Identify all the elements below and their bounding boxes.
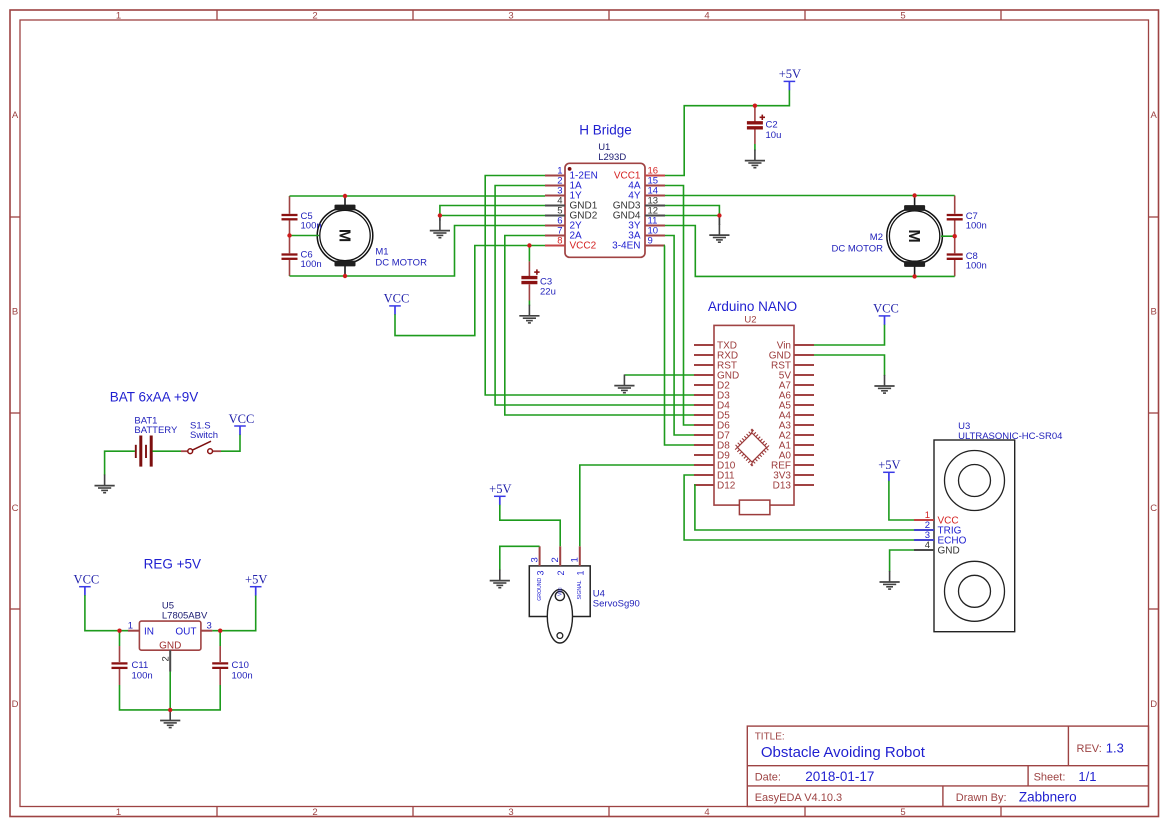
U3 pin 4 (GND) — [914, 540, 960, 557]
junction node GND3/GND4 — [717, 213, 721, 217]
svg-text:1: 1 — [116, 807, 121, 818]
svg-text:D: D — [12, 699, 19, 710]
ground (U2 right) — [874, 375, 894, 393]
wire C2 to ground — [754, 144, 756, 151]
ground (regulator) — [160, 709, 180, 727]
U4 pin 2 (Vcc) — [550, 546, 566, 596]
svg-text:4: 4 — [704, 807, 709, 818]
wire C7/C8 node to motor M2 — [941, 235, 955, 237]
capacitor C2 (10u polarized) — [747, 106, 781, 144]
svg-text:100n: 100n — [232, 671, 253, 682]
svg-text:GND: GND — [938, 546, 960, 557]
U1 pin 14 (4Y) — [628, 186, 665, 202]
wire battery left to ground — [105, 451, 135, 475]
junction node ground rail — [168, 708, 172, 712]
svg-text:100n: 100n — [301, 221, 322, 232]
svg-text:2018-01-17: 2018-01-17 — [805, 769, 874, 784]
ground (servo) — [490, 570, 510, 588]
U3 pin 2 (TRIG) — [914, 520, 962, 537]
svg-text:C11: C11 — [132, 660, 149, 671]
wire Arduino D11 to U3 ECHO — [684, 475, 914, 540]
svg-text:REV:: REV: — [1077, 743, 1102, 755]
capacitor C11 — [112, 631, 153, 685]
U1 pin 16 (VCC1) — [614, 166, 665, 182]
capacitor C7 — [947, 196, 987, 237]
svg-text:Arduino NANO: Arduino NANO — [708, 299, 797, 314]
power flag VCC (battery) — [229, 412, 255, 435]
junction node M2 bottom — [912, 274, 916, 278]
U1 pin 2 (1A) — [545, 176, 582, 192]
wire C3 to ground — [528, 301, 530, 306]
wire C5/C6 node to motor M1 — [290, 235, 320, 237]
svg-text:DC MOTOR: DC MOTOR — [831, 243, 883, 254]
svg-text:Drawn By:: Drawn By: — [956, 792, 1007, 804]
regulator U5 L7805ABV — [128, 601, 213, 672]
U1 pin 13 (GND3) — [613, 196, 665, 212]
wire U1 pin14 (4Y) to M2 top — [665, 195, 955, 197]
U2 right pin stubs — [794, 345, 814, 485]
U1 pin 4 (GND1) — [545, 196, 598, 212]
svg-text:1: 1 — [576, 570, 586, 575]
svg-text:TITLE:: TITLE: — [755, 732, 785, 743]
wire U4 pin1 (SIGNAL) to Arduino D10 — [580, 465, 694, 546]
capacitor C3 (22u polarized) — [521, 246, 555, 301]
wire M1 top to U1 pin3 (1Y) — [290, 195, 546, 197]
wire U2 GND (right) to ground — [814, 355, 885, 376]
capacitor C6 — [282, 236, 322, 277]
svg-text:Zabbnero: Zabbnero — [1019, 789, 1077, 804]
ground (battery) — [95, 475, 115, 493]
svg-text:10u: 10u — [766, 130, 782, 141]
svg-text:2: 2 — [550, 557, 561, 562]
ground (C3) — [519, 305, 539, 323]
svg-text:3: 3 — [529, 557, 540, 562]
svg-text:M2: M2 — [870, 232, 883, 243]
svg-text:Obstacle Avoiding Robot: Obstacle Avoiding Robot — [761, 744, 926, 761]
svg-text:2: 2 — [556, 570, 566, 575]
svg-text:B: B — [12, 307, 18, 318]
wire U1 pin7 (2A) to Arduino D5 — [505, 236, 694, 416]
svg-text:100n: 100n — [132, 671, 153, 682]
svg-text:ServoSg90: ServoSg90 — [593, 598, 640, 609]
svg-text:VCC2: VCC2 — [570, 241, 597, 252]
capacitor C8 — [947, 236, 987, 276]
capacitor C10 — [212, 631, 252, 685]
svg-text:Sheet:: Sheet: — [1034, 772, 1066, 784]
svg-text:GND: GND — [159, 640, 181, 651]
wire U1 pin12 (GND4) to ground — [665, 215, 719, 217]
svg-text:8: 8 — [557, 236, 562, 247]
junction node C7/C8 — [953, 234, 957, 238]
wire U5 pin2 to ground rail — [169, 672, 171, 710]
U2 left pin stubs — [694, 345, 714, 485]
U1 pin 9 (3-4EN) — [612, 236, 665, 252]
wire U1 pin9 (3-4EN) to Arduino D8 — [665, 246, 695, 446]
wire U3 GND to ground — [890, 550, 914, 572]
wire VCC to pin1 of U5 — [85, 595, 128, 631]
svg-text:Vcc: Vcc — [557, 587, 563, 596]
svg-text:A: A — [1151, 110, 1158, 121]
svg-text:22u: 22u — [540, 287, 556, 298]
svg-text:EasyEDA V4.10.3: EasyEDA V4.10.3 — [755, 792, 842, 804]
svg-text:H Bridge: H Bridge — [579, 123, 632, 138]
U1 pin 5 (GND2) — [545, 206, 598, 222]
ground (C2) — [745, 150, 765, 168]
svg-text:D: D — [1150, 699, 1157, 710]
svg-text:BAT 6xAA +9V: BAT 6xAA +9V — [110, 390, 198, 405]
ground (U1 right) — [718, 216, 720, 226]
U3 pin 1 (VCC) — [914, 510, 959, 527]
svg-text:Date:: Date: — [755, 772, 781, 784]
wire U1 pin11 (3Y) to M2 bottom — [665, 226, 955, 277]
capacitor C5 — [282, 196, 322, 236]
svg-text:9: 9 — [648, 236, 653, 247]
wire U1 pin15 (4A) to Arduino D6 — [665, 186, 694, 426]
wire +5V to U3 pin1 — [889, 481, 914, 520]
junction node C2 tap — [753, 104, 757, 108]
power flag +5V (ultrasonic) — [878, 458, 900, 481]
wire VCC to U1 pin8 (VCC2) — [395, 246, 545, 336]
ground (ultrasonic) — [880, 571, 900, 589]
microcontroller U2 Arduino NANO body — [714, 315, 794, 505]
svg-text:C: C — [1150, 503, 1157, 514]
U1 pin 7 (2A) — [545, 226, 582, 242]
svg-text:2: 2 — [161, 656, 172, 661]
svg-text:4: 4 — [704, 11, 709, 22]
ground (U1 left) — [439, 216, 441, 221]
svg-text:100n: 100n — [301, 259, 322, 270]
U1 pin 8 (VCC2) — [545, 236, 597, 252]
wire U1 pin16 (VCC1) to +5V rail — [665, 90, 789, 176]
svg-text:GROUND: GROUND — [537, 577, 543, 600]
svg-text:100n: 100n — [966, 221, 987, 232]
servo U4 ServoSg90 body — [529, 566, 640, 643]
wire C11 down to ground rail — [120, 685, 221, 710]
svg-text:D13: D13 — [773, 481, 792, 492]
svg-text:1.3: 1.3 — [1106, 740, 1124, 755]
junction node GND1/GND2 — [438, 213, 442, 217]
U1 pin 15 (4A) — [628, 176, 665, 192]
wire U1 pin5 (GND2) to ground — [440, 215, 545, 217]
wire U1 pin13 (GND3) to ground — [665, 206, 719, 216]
svg-text:M: M — [335, 229, 352, 242]
U2 right pin labels — [769, 341, 792, 492]
U1 pin 6 (2Y) — [545, 216, 582, 232]
svg-text:BATTERY: BATTERY — [134, 425, 178, 436]
svg-text:U2: U2 — [744, 315, 756, 326]
svg-text:5: 5 — [900, 11, 905, 22]
wire pin3 of U5 to +5V — [212, 595, 255, 631]
svg-text:2: 2 — [312, 807, 317, 818]
svg-text:L7805ABV: L7805ABV — [162, 610, 208, 621]
svg-text:D12: D12 — [717, 481, 736, 492]
junction node M2 top — [912, 193, 916, 197]
svg-text:A: A — [12, 110, 19, 121]
svg-text:C10: C10 — [232, 660, 249, 671]
sensor U3 ULTRASONIC-HC-SR04 body — [934, 421, 1062, 632]
power flag +5V (servo) — [489, 482, 511, 505]
U2 USB connector — [739, 500, 770, 514]
motor M1 — [317, 196, 427, 276]
junction node M1 top — [343, 194, 347, 198]
U4 pin 3 (GROUND) — [529, 546, 545, 601]
wire U4 pin3 to ground — [500, 546, 540, 570]
svg-text:3: 3 — [535, 570, 545, 575]
motor M2 — [831, 196, 942, 277]
power flag VCC (H bridge) — [384, 292, 410, 315]
svg-text:3: 3 — [508, 807, 513, 818]
U1 pin 11 (3Y) — [628, 216, 665, 232]
svg-text:B: B — [1151, 307, 1157, 318]
U1 pin 10 (3A) — [628, 226, 665, 242]
svg-text:C: C — [12, 503, 19, 514]
junction node C5/C6 — [287, 233, 291, 237]
svg-text:L293D: L293D — [598, 152, 626, 163]
svg-text:1: 1 — [128, 620, 133, 631]
U2 left pin labels — [717, 341, 739, 492]
wire U1 pin1 (1-2EN) to Arduino D3 — [485, 176, 694, 396]
svg-text:3: 3 — [508, 11, 513, 22]
svg-text:OUT: OUT — [175, 626, 196, 637]
svg-text:REG +5V: REG +5V — [144, 556, 201, 571]
U3 pin 3 (ECHO) — [914, 530, 967, 547]
svg-text:Switch: Switch — [190, 430, 218, 441]
switch S1.S — [181, 420, 221, 453]
op-amp U1 L293D body — [565, 142, 645, 257]
svg-text:M1: M1 — [375, 246, 388, 257]
svg-text:3: 3 — [207, 620, 212, 631]
power flag VCC (regulator input) — [74, 573, 100, 596]
svg-text:1: 1 — [570, 557, 581, 562]
U1 pin 12 (GND4) — [613, 206, 665, 222]
power flag +5V (regulator output) — [245, 573, 267, 596]
wire M1 bottom to U1 pin6 (2Y) — [290, 226, 546, 277]
U4 pin 1 (SIGNAL) — [570, 546, 586, 599]
wire Arduino D12 to U3 TRIG — [694, 485, 914, 530]
svg-text:1: 1 — [116, 11, 121, 22]
svg-text:100n: 100n — [966, 261, 987, 272]
svg-text:IN: IN — [144, 626, 154, 637]
battery BAT1 — [134, 416, 178, 467]
svg-text:M: M — [905, 229, 922, 242]
svg-text:5: 5 — [900, 807, 905, 818]
wire U2 GND (left) to ground — [624, 374, 694, 376]
junction node C11/pin1 — [117, 629, 121, 633]
svg-text:1/1: 1/1 — [1078, 769, 1096, 784]
svg-text:SIGNAL: SIGNAL — [577, 580, 583, 599]
svg-text:2: 2 — [312, 11, 317, 22]
junction node M1 bottom — [343, 274, 347, 278]
wire U1 pin10 (3A) to Arduino D7 — [665, 236, 694, 436]
wire +5V to U4 pin2 — [500, 505, 560, 547]
wire U1 pin2 (1A) to Arduino D4 — [495, 186, 694, 406]
junction node C3 tap — [527, 243, 531, 247]
svg-text:DC MOTOR: DC MOTOR — [375, 258, 427, 269]
power flag VCC (Arduino Vin) — [873, 302, 899, 325]
junction node C10/pin3 — [218, 629, 222, 633]
wire U2 Vin to VCC — [814, 324, 885, 345]
svg-text:4: 4 — [925, 540, 930, 551]
U2 IC glyph (diamond) — [736, 431, 769, 464]
power flag +5V (top) — [779, 67, 801, 90]
wire U1 pin4 (GND1) to ground — [440, 206, 545, 216]
svg-text:3-4EN: 3-4EN — [612, 241, 640, 252]
ground (U2 left) — [614, 375, 634, 393]
wire switch to VCC — [221, 434, 240, 451]
U1 pin 1 (1-2EN) — [545, 166, 598, 182]
U1 pin 3 (1Y) — [545, 186, 582, 202]
wire battery right to switch — [153, 450, 182, 452]
title block — [747, 726, 1148, 806]
